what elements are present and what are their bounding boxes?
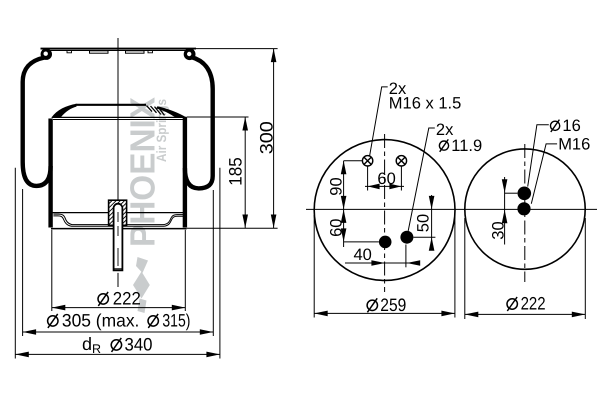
svg-text:M16 x 1.5: M16 x 1.5 [389, 95, 461, 113]
air fitting hole left (filled) [379, 236, 392, 249]
air fitting hole right (filled) [400, 231, 413, 244]
bead plate tab 2 [126, 51, 145, 53]
dim 30 vertical line with outside arrows [504, 177, 506, 245]
label dia 11.9 [439, 139, 448, 151]
dim 90/60 vertical line [343, 161, 345, 247]
piston base tub profile upper contour [53, 214, 183, 225]
extension from right filled hole down [405, 245, 407, 268]
svg-text:259: 259 [380, 295, 406, 315]
svg-text:222: 222 [113, 288, 141, 308]
dimension line 300 [273, 49, 275, 228]
svg-text:222: 222 [521, 294, 546, 314]
svg-text:340: 340 [125, 334, 153, 354]
dimension line dia 222 [52, 307, 186, 309]
dim 60 line with arrows [365, 185, 404, 187]
piston cap left shoulder [51, 104, 76, 118]
dim 60 between bolt holes: extension lines [367, 166, 369, 190]
svg-text:50: 50 [415, 214, 433, 232]
svg-text:11.9: 11.9 [451, 137, 482, 155]
extension to crossed circle [344, 160, 363, 162]
label dR dia 340 [82, 334, 153, 356]
piston cap right shoulder [156, 106, 187, 118]
label dia 305 max 315 [48, 310, 191, 330]
dia 222 dimension line [465, 313, 586, 315]
svg-text:R: R [92, 342, 101, 356]
TOP VIEW (middle circle) [306, 80, 597, 317]
stud dia 16 upper (filled) [518, 187, 532, 201]
leader M16 [531, 144, 557, 204]
svg-text:185: 185 [226, 157, 246, 186]
svg-text:16: 16 [562, 117, 580, 135]
extension lines dia 305 [22, 189, 24, 336]
leader dia 16 [528, 125, 549, 187]
dim 40 line [345, 262, 420, 264]
piston cap top surface [76, 104, 147, 106]
rolled bead left [41, 49, 52, 60]
bead plate (top plate) [41, 48, 197, 50]
svg-text:60: 60 [377, 170, 395, 188]
bellows outer wall left + rolling lobe [23, 58, 51, 186]
extension lines dia 340 [14, 168, 16, 359]
vertical centerline dashed [384, 134, 386, 292]
extension to filled circle [344, 241, 379, 243]
BOTTOM VIEW (right circle) [465, 117, 591, 319]
piston bottom face [51, 228, 187, 230]
bolt hole M16 left (crossed circle) [362, 156, 372, 166]
label dia 222 right [507, 297, 517, 311]
svg-text:305 (max.: 305 (max. [62, 310, 139, 330]
extension lines dia 222 [51, 230, 53, 311]
stud tip chamfer [114, 268, 123, 270]
bead plate tab 1 [90, 51, 109, 53]
dia 259 dimension line [314, 312, 455, 314]
stud boss block with hatching [68, 196, 163, 232]
label dia 222 [98, 288, 141, 308]
svg-text:30: 30 [490, 221, 508, 239]
label dia 16 [551, 120, 560, 132]
bellows outer wall right + rolling lobe [185, 57, 213, 188]
label dia 259 [367, 298, 377, 312]
watermark PHOENIX logo [124, 96, 170, 313]
stud centerline dashes [117, 212, 119, 240]
centerline vertical [117, 38, 119, 204]
piston cap right ribbed edge (hatch) [147, 106, 165, 116]
horizontal centerline (shared) [306, 208, 597, 210]
bellows inner wall / piston wall left [48, 119, 52, 228]
circle outline dia 259 [314, 140, 455, 281]
svg-text:90: 90 [327, 177, 345, 195]
stud M16 lower (filled) [517, 202, 530, 215]
piston base tub profile lower contour [53, 216, 183, 226]
leader 2x dia 11.9 [408, 128, 435, 231]
vertical centerline dashed [524, 144, 526, 282]
SIDE VIEW [15, 38, 277, 359]
dimension 185 top extension line [187, 116, 249, 118]
svg-text:300: 300 [257, 121, 277, 154]
rolled bead right [184, 48, 196, 60]
svg-text:315): 315) [162, 310, 190, 330]
dimension line dR dia 340 [15, 353, 220, 355]
piston cap ledge double line [52, 116, 187, 118]
bolt hole M16 right (crossed circle) [396, 156, 406, 166]
extension from right filled hole right [414, 236, 436, 238]
dimension line 185 [244, 117, 246, 228]
svg-text:40: 40 [354, 246, 372, 264]
dim 50 vertical line [431, 195, 433, 251]
dim 30 extension line [505, 192, 518, 194]
dia 222 extension lines [464, 218, 466, 319]
circle outline dia 222 [465, 149, 585, 269]
bellows inner wall / piston wall right [183, 118, 187, 228]
bead plate tab left tick [67, 51, 72, 53]
bead plate tab right tick [148, 51, 153, 53]
dimension 300 top extension line [196, 48, 278, 50]
svg-text:d: d [82, 334, 92, 354]
leader 2x M16x1.5 [370, 87, 388, 156]
dia 259 extension lines [313, 215, 315, 318]
dimension line dia 305 [23, 331, 214, 333]
piston base top edge [52, 212, 186, 214]
svg-text:60: 60 [327, 219, 345, 237]
svg-text:M16: M16 [558, 135, 590, 153]
bottom shared extension line [187, 227, 278, 229]
stud (bolt) [114, 204, 123, 271]
